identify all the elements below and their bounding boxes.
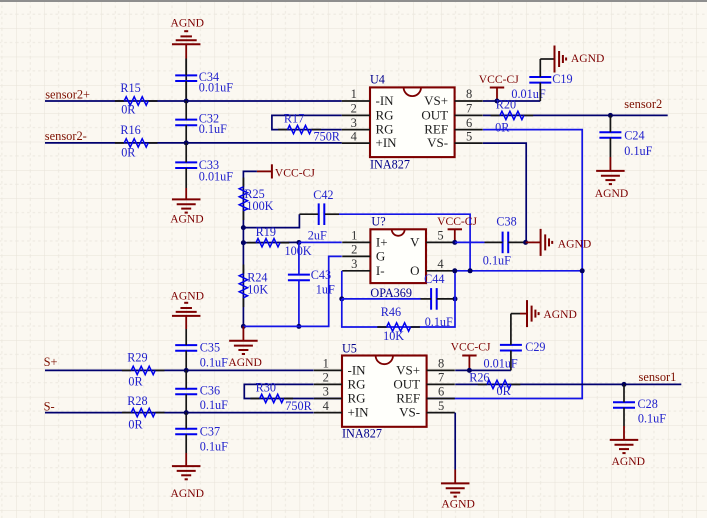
svg-text:750R: 750R: [314, 129, 341, 143]
net label sensor1: [639, 370, 677, 384]
resistor R30: [250, 380, 312, 413]
svg-text:-IN: -IN: [348, 362, 367, 377]
svg-text:0R: 0R: [121, 145, 136, 159]
svg-text:0R: 0R: [128, 374, 143, 388]
wire: [242, 243, 244, 327]
svg-text:R15: R15: [120, 81, 140, 95]
svg-text:AGND: AGND: [558, 237, 592, 250]
svg-text:OPA369: OPA369: [370, 286, 412, 300]
svg-text:C19: C19: [552, 72, 572, 86]
capacitor C33: [175, 143, 233, 188]
ground AGND (below C37): [171, 453, 205, 500]
ground AGND (above C35): [171, 289, 205, 329]
wire: [243, 171, 257, 227]
svg-text:R19: R19: [256, 225, 276, 239]
power VCC-CJ (U? pin5): [437, 215, 477, 242]
net label sensor2: [624, 97, 662, 111]
wire REF net: [314, 130, 583, 399]
svg-text:AGND: AGND: [170, 212, 204, 225]
svg-text:0R: 0R: [497, 384, 512, 398]
node sensor2: [608, 113, 613, 118]
svg-text:VS+: VS+: [424, 93, 448, 108]
svg-text:8: 8: [438, 357, 444, 371]
capacitor C35: [175, 329, 228, 370]
svg-text:4: 4: [351, 129, 358, 143]
svg-text:INA827: INA827: [342, 427, 382, 441]
resistor R46: [377, 305, 420, 343]
svg-text:C24: C24: [624, 129, 644, 143]
svg-text:AGND: AGND: [571, 52, 605, 65]
svg-text:AGND: AGND: [171, 289, 205, 302]
svg-text:OUT: OUT: [421, 107, 448, 122]
ground AGND (C38): [526, 229, 592, 256]
ground AGND (U5 pin5): [441, 470, 475, 511]
wire: [483, 100, 540, 102]
svg-text:sensor2: sensor2: [624, 97, 662, 111]
node (C44/R46 right): [453, 296, 458, 301]
resistor R25: [239, 178, 273, 221]
svg-text:U5: U5: [342, 342, 357, 356]
wire (pin5 to ground): [454, 413, 456, 470]
resistor R28: [122, 394, 165, 432]
svg-text:10K: 10K: [383, 329, 404, 343]
op-amp U? OPA369: [342, 215, 454, 300]
wire: [45, 369, 314, 371]
svg-text:0.1uF: 0.1uF: [200, 439, 228, 453]
node B: [241, 240, 246, 245]
svg-text:R17: R17: [284, 112, 304, 126]
svg-text:750R: 750R: [285, 399, 312, 413]
svg-text:0R: 0R: [128, 418, 143, 432]
resistor R26: [469, 371, 520, 399]
wire: [45, 412, 314, 414]
capacitor C44: [421, 272, 456, 329]
ground AGND (node B): [228, 326, 262, 369]
svg-text:2: 2: [323, 371, 329, 385]
svg-text:R30: R30: [256, 380, 276, 394]
svg-text:1: 1: [351, 87, 357, 101]
svg-text:1: 1: [323, 357, 329, 371]
svg-text:AGND: AGND: [171, 16, 205, 29]
svg-text:5: 5: [437, 229, 443, 243]
capacitor C42: [299, 188, 339, 242]
wire: [242, 228, 244, 243]
svg-text:C44: C44: [424, 272, 444, 286]
svg-text:5: 5: [438, 399, 444, 413]
svg-text:7: 7: [466, 102, 472, 116]
svg-text:C28: C28: [638, 397, 658, 411]
ground AGND (C28): [610, 426, 645, 468]
wire R46 loop: [342, 271, 455, 327]
net label sensor2+: [45, 87, 90, 101]
wire (pin2 to R17 loop): [272, 115, 342, 129]
svg-text:S+: S+: [44, 355, 58, 369]
svg-text:0.01uF: 0.01uF: [199, 80, 233, 94]
svg-text:0.1uF: 0.1uF: [638, 411, 666, 425]
resistor R20: [491, 97, 534, 134]
node (O/R46/C42): [452, 268, 457, 273]
svg-text:0.1uF: 0.1uF: [200, 398, 228, 412]
node (pin5/VCC): [452, 240, 457, 245]
capacitor C38: [483, 215, 526, 268]
capacitor C36: [175, 370, 228, 412]
op-amp U4 INA827: [342, 72, 483, 171]
svg-text:2: 2: [351, 243, 357, 257]
wire (pin2 to R30 loop): [244, 384, 313, 398]
node (VCC/pin8): [467, 368, 472, 373]
svg-text:1uF: 1uF: [316, 282, 335, 296]
capacitor C24: [599, 115, 652, 158]
svg-text:7: 7: [438, 371, 444, 385]
node (row1/C43): [296, 324, 301, 329]
wire: [455, 369, 511, 371]
svg-text:0.01uF: 0.01uF: [199, 169, 233, 183]
capacitor C37: [175, 413, 228, 454]
svg-text:C36: C36: [200, 384, 220, 398]
resistor R15: [115, 81, 158, 117]
svg-text:0.1uF: 0.1uF: [199, 122, 227, 136]
svg-text:C42: C42: [313, 188, 333, 202]
svg-text:0.01uF: 0.01uF: [484, 357, 518, 371]
capacitor C43: [288, 243, 335, 327]
svg-text:1: 1: [351, 229, 357, 243]
wire: [45, 100, 342, 102]
wire: [455, 241, 485, 243]
svg-text:2: 2: [351, 102, 357, 116]
net label S-: [44, 400, 55, 414]
resistor R16: [115, 123, 158, 160]
power VCC-CJ (R25): [257, 164, 315, 179]
svg-text:U4: U4: [370, 72, 385, 86]
svg-text:+IN: +IN: [348, 405, 370, 420]
capacitor C32: [175, 101, 227, 143]
svg-text:U?: U?: [371, 215, 385, 229]
capacitor C19: [511, 59, 572, 101]
svg-text:3: 3: [323, 385, 329, 399]
wire (O row): [455, 270, 582, 272]
node (C32/C33/sensor2-): [184, 140, 189, 145]
capacitor C34: [175, 59, 233, 102]
node (C38/VS-/AGND): [523, 240, 528, 245]
wire: [243, 241, 299, 243]
svg-text:4: 4: [323, 399, 330, 413]
svg-text:C37: C37: [200, 425, 220, 439]
power VCC-CJ (U5 pin8): [451, 341, 491, 371]
svg-text:VS-: VS-: [427, 135, 448, 150]
svg-text:8: 8: [466, 87, 472, 101]
svg-text:VCC-CJ: VCC-CJ: [451, 341, 491, 354]
svg-text:INA827: INA827: [370, 158, 410, 172]
node (O/REF column): [580, 268, 585, 273]
svg-text:C38: C38: [496, 215, 516, 229]
svg-text:5: 5: [466, 129, 472, 143]
svg-text:R16: R16: [120, 123, 140, 137]
svg-text:OUT: OUT: [393, 376, 420, 391]
wire: [45, 142, 342, 144]
wire: [185, 59, 187, 99]
node (VCC/pin8): [495, 99, 500, 104]
svg-text:AGND: AGND: [612, 455, 646, 468]
svg-text:O: O: [410, 263, 419, 278]
capacitor C28: [613, 384, 666, 426]
wire: [299, 241, 342, 243]
wire: [341, 271, 343, 299]
node (R19/pin1/C43): [296, 240, 301, 245]
wire: [483, 114, 668, 116]
svg-text:3: 3: [351, 116, 357, 130]
svg-text:RG: RG: [348, 376, 366, 391]
wire G loop: [243, 256, 341, 326]
svg-text:AGND: AGND: [543, 308, 577, 321]
resistor R17: [278, 112, 341, 144]
node sensor1: [622, 382, 627, 387]
svg-text:AGND: AGND: [441, 498, 475, 511]
wire: [455, 383, 681, 385]
svg-text:R26: R26: [469, 371, 489, 385]
net label S+: [44, 355, 58, 369]
svg-text:+IN: +IN: [376, 135, 398, 150]
svg-text:VS-: VS-: [399, 405, 420, 420]
svg-text:S-: S-: [44, 400, 55, 414]
svg-text:I-: I-: [376, 263, 385, 278]
svg-text:VCC-CJ: VCC-CJ: [479, 73, 519, 86]
svg-text:0R: 0R: [495, 120, 510, 134]
net label sensor2-: [45, 129, 87, 143]
svg-text:R29: R29: [127, 351, 147, 365]
op-amp U5 INA827: [314, 342, 455, 441]
svg-text:100K: 100K: [246, 199, 273, 213]
svg-text:VCC-CJ: VCC-CJ: [437, 215, 477, 228]
svg-text:6: 6: [438, 385, 444, 399]
svg-text:RG: RG: [348, 391, 366, 406]
svg-text:R28: R28: [127, 394, 147, 408]
svg-text:0.1uF: 0.1uF: [624, 144, 652, 158]
svg-text:REF: REF: [396, 391, 420, 406]
svg-text:C29: C29: [525, 340, 545, 354]
ground AGND (C29): [520, 300, 577, 327]
node (C42 drop): [468, 268, 473, 273]
node (I-/C44/R46): [339, 296, 344, 301]
svg-text:6: 6: [466, 116, 472, 130]
node A: [241, 225, 246, 230]
ground AGND (C19): [555, 46, 605, 73]
svg-text:-IN: -IN: [376, 93, 395, 108]
resistor R29: [122, 351, 165, 389]
svg-text:AGND: AGND: [228, 356, 262, 369]
ground AGND (above C34): [171, 16, 205, 58]
wire: [483, 143, 526, 242]
svg-text:4: 4: [437, 257, 444, 271]
power VCC-CJ (U4 pin8): [479, 73, 519, 101]
svg-text:I+: I+: [376, 234, 388, 249]
resistor R24: [239, 265, 268, 308]
svg-text:AGND: AGND: [171, 487, 205, 500]
wire: [342, 298, 421, 300]
svg-text:VCC-CJ: VCC-CJ: [275, 167, 315, 180]
svg-text:G: G: [376, 248, 385, 263]
ground AGND (below C33): [170, 188, 204, 225]
wire (C42 to O): [339, 214, 470, 271]
svg-text:RG: RG: [376, 107, 394, 122]
svg-text:3: 3: [351, 257, 357, 271]
svg-text:AGND: AGND: [595, 187, 629, 200]
wire: [243, 214, 299, 227]
svg-text:2uF: 2uF: [308, 229, 327, 243]
svg-text:V: V: [410, 234, 420, 249]
node (C35/C36/S+): [184, 368, 189, 373]
ground AGND (C24): [595, 157, 629, 200]
svg-text:VS+: VS+: [396, 362, 420, 377]
svg-text:sensor2+: sensor2+: [45, 87, 90, 101]
svg-text:10K: 10K: [247, 283, 268, 297]
resistor R19: [247, 225, 312, 258]
node (C34/C32/sensor2+): [184, 99, 189, 104]
node (C36/C37/S-): [184, 410, 189, 415]
svg-text:sensor2-: sensor2-: [45, 129, 87, 143]
svg-text:0.1uF: 0.1uF: [200, 356, 228, 370]
node (row1/R24): [241, 324, 246, 329]
svg-text:sensor1: sensor1: [639, 370, 677, 384]
svg-text:0.1uF: 0.1uF: [483, 253, 511, 267]
svg-text:R46: R46: [381, 305, 401, 319]
svg-text:C35: C35: [200, 340, 220, 354]
svg-text:0R: 0R: [121, 103, 136, 117]
window top edge: [0, 0, 707, 2]
capacitor C29: [484, 314, 546, 371]
svg-text:R20: R20: [496, 97, 516, 111]
